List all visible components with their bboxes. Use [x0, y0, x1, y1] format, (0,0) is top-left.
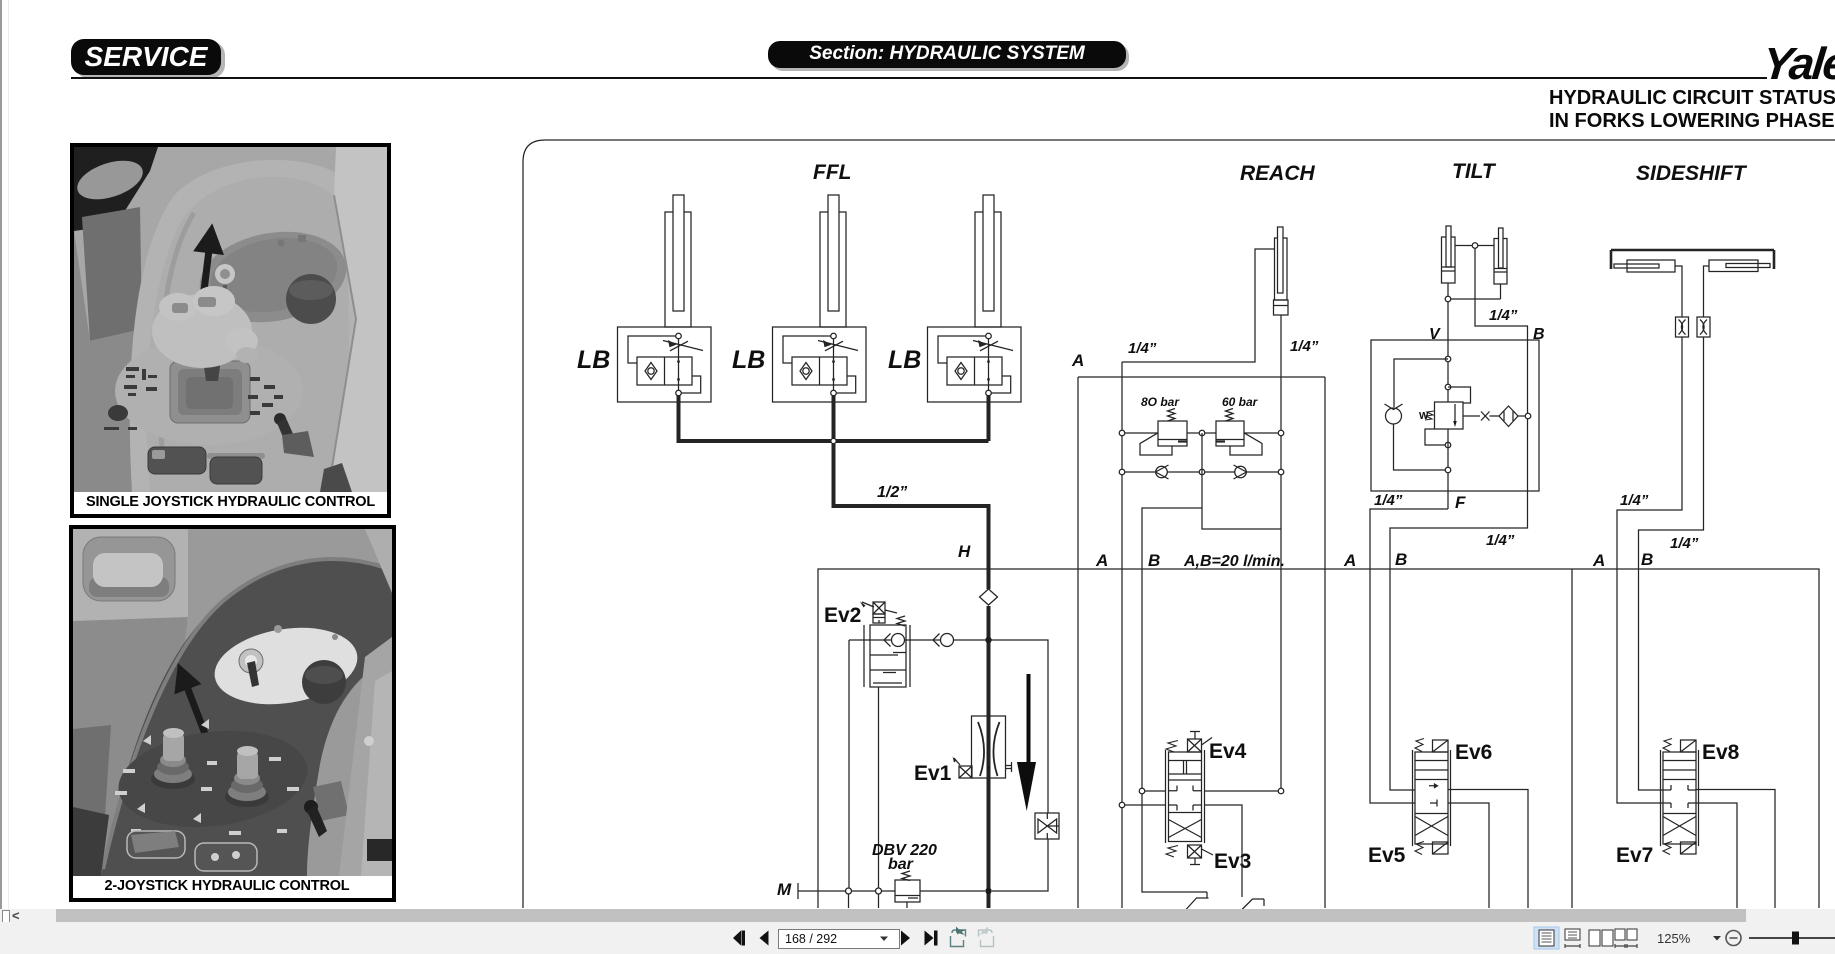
solenoid Ev7: [1681, 842, 1697, 854]
last page button: [925, 931, 938, 946]
valve LB3 with lift cylinder: [928, 195, 1022, 402]
svg-text:F: F: [1455, 493, 1466, 512]
relief valve 80 bar: [1140, 421, 1187, 455]
svg-text:Ev1: Ev1: [914, 762, 952, 785]
svg-text:1/4”: 1/4”: [1620, 492, 1649, 509]
wire Ev2 drain drop: [878, 687, 880, 888]
spring relief 80bar: [1168, 409, 1176, 422]
solenoid Ev3: [1188, 845, 1214, 865]
wire relief supply line: [1119, 430, 1284, 436]
X mark restrictor: [1463, 412, 1490, 421]
solenoid Ev2: [860, 602, 897, 624]
coupler right: [1697, 317, 1710, 337]
wire TILT V line: [1445, 302, 1451, 402]
view mode single page (active): [1534, 927, 1559, 949]
wire TILT cylinder top link: [1455, 243, 1494, 249]
wire TILT pilot lower: [1425, 429, 1451, 448]
spring relief 60bar: [1226, 409, 1234, 422]
wire sideshift left drop: [1675, 266, 1682, 317]
check valve REACH right: [1234, 465, 1247, 479]
spring Ev5: [1415, 842, 1424, 855]
wire sideshift right drop: [1704, 266, 1710, 317]
next page button: [901, 931, 910, 946]
svg-text:M: M: [777, 880, 792, 899]
wire check line lower: [1119, 469, 1284, 475]
svg-text:SIDESHIFT: SIDESHIFT: [1636, 162, 1748, 185]
diagram border frame: [523, 140, 1835, 908]
relief valve 60 bar: [1216, 421, 1262, 455]
check valve on Ev2 line: [933, 634, 954, 647]
valve Ev5/Ev6 directional spool: [1413, 750, 1451, 846]
shutoff valve bowtie: [1035, 813, 1059, 839]
svg-text:60 bar: 60 bar: [1222, 395, 1259, 409]
wire Ev3/4 out to tank2: [1205, 805, 1243, 897]
coupler left: [1676, 317, 1689, 337]
wire A-line to tank1: [1142, 794, 1207, 892]
svg-text:A: A: [1071, 351, 1084, 370]
check symbol diamond on H line: [980, 589, 998, 605]
solenoid Ev4: [1188, 732, 1213, 753]
wire REACH B branch: [1142, 433, 1281, 791]
wire stubs below M line: [849, 894, 908, 908]
svg-text:1/4”: 1/4”: [1128, 340, 1157, 357]
svg-text:1/4”: 1/4”: [1670, 535, 1699, 552]
spring DBV: [902, 871, 910, 881]
svg-text:Ev4: Ev4: [1209, 740, 1247, 763]
valve TILT compensator: [1435, 402, 1464, 429]
svg-text:A,B=20 l/min.: A,B=20 l/min.: [1183, 553, 1285, 570]
wire TILT pilot upper: [1448, 387, 1471, 403]
svg-text:A: A: [1343, 551, 1356, 570]
spring Ev2: [897, 616, 905, 626]
view mode two pages continuous: [1615, 929, 1637, 948]
svg-text:1/4”: 1/4”: [1290, 338, 1319, 355]
port M tick: [797, 883, 799, 899]
valve LB1 with lift cylinder: [618, 195, 712, 402]
cylinder REACH: [1274, 227, 1289, 315]
wire REACH A line down: [1078, 377, 1325, 908]
wire TILT cylinder bottoms: [1445, 283, 1500, 302]
svg-text:1/4”: 1/4”: [1486, 532, 1515, 549]
svg-text:Ev2: Ev2: [824, 604, 861, 627]
spring Ev4: [1166, 741, 1178, 753]
wire Ev3/4 port right: [1205, 788, 1284, 794]
svg-text:A: A: [1095, 551, 1108, 570]
first page button: [733, 931, 745, 946]
solenoid Ev6: [1433, 740, 1449, 752]
wire TILT left branch lower: [1394, 424, 1449, 470]
svg-text:LB: LB: [577, 346, 610, 374]
cylinder TILT right: [1494, 228, 1507, 284]
wire REACH valve line down: [1121, 362, 1123, 908]
next view button (disabled): [978, 927, 994, 947]
zoom dropdown arrow: [1713, 936, 1721, 941]
solenoid Ev1: [953, 757, 973, 779]
wire Ev3/4 port A left: [1139, 788, 1165, 794]
svg-text:W: W: [1419, 411, 1429, 422]
wire M line: [798, 888, 985, 894]
cylinder SIDESHIFT double rod: [1611, 250, 1774, 272]
spring Ev7: [1663, 842, 1672, 855]
zoom slider: [1749, 932, 1835, 945]
previous page button: [760, 931, 769, 946]
manifold block boundary: [818, 569, 1819, 908]
svg-text:REACH: REACH: [1240, 162, 1316, 185]
view mode two pages: [1589, 930, 1613, 946]
svg-text:H: H: [958, 542, 971, 561]
wire REACH rod-side port: [1122, 249, 1275, 362]
wire Ev2 left drop to M line: [848, 640, 850, 891]
svg-text:1/4”: 1/4”: [1489, 307, 1518, 324]
valve Ev2 pressure regulator body: [864, 625, 910, 687]
valve Ev1 flow regulator: [972, 716, 1012, 778]
svg-text:Ev7: Ev7: [1616, 844, 1653, 867]
wire Ev7/8 outputs: [1696, 790, 1775, 909]
spring Ev3: [1166, 846, 1178, 858]
view mode continuous: [1565, 929, 1580, 948]
tank symbol 2: [1242, 899, 1264, 910]
valve LB2 with lift cylinder: [773, 195, 867, 402]
svg-text:1/2”: 1/2”: [877, 484, 907, 501]
wire TILT F to A port: [1370, 509, 1448, 803]
wire TILT center lower: [1445, 429, 1451, 509]
wire Ev2 inlet line: [849, 639, 940, 641]
wire thick H supply down: [985, 606, 991, 908]
spring Ev8: [1663, 739, 1672, 752]
svg-text:A: A: [1592, 551, 1605, 570]
svg-text:TILT: TILT: [1452, 160, 1497, 183]
wire TILT B from link: [1475, 248, 1528, 413]
tank symbol 1: [1186, 892, 1209, 910]
arrow lowering indicator: [1017, 674, 1036, 811]
check valve TILT: [1385, 404, 1403, 424]
previous view button: [951, 927, 967, 947]
wire Ev3/4 port lower left: [1119, 802, 1165, 808]
TILT box: [1371, 340, 1539, 491]
svg-text:FFL: FFL: [813, 161, 851, 184]
wire REACH piston-side port down: [1280, 315, 1282, 791]
svg-text:1/4”: 1/4”: [1374, 492, 1403, 509]
page box dropdown arrow: [880, 937, 888, 942]
zoom out button: [1726, 931, 1741, 946]
spring Ev6: [1415, 739, 1424, 752]
solenoid Ev5: [1433, 842, 1449, 854]
wire sideshift left to A: [1617, 337, 1682, 803]
spring TILT compensator: [1425, 411, 1434, 420]
svg-text:B: B: [1641, 550, 1653, 569]
cylinder TILT left: [1442, 226, 1456, 283]
solenoid Ev8: [1681, 740, 1697, 752]
wire sideshift right to B: [1639, 337, 1704, 790]
valve Ev3/Ev4 directional spool: [1166, 750, 1205, 843]
valve Ev7/Ev8 directional spool: [1661, 750, 1699, 846]
svg-text:Ev5: Ev5: [1368, 844, 1406, 867]
valve DBV relief: [895, 880, 920, 902]
wire thick supply bus from LB valves: [679, 395, 989, 589]
svg-text:LB: LB: [888, 346, 921, 374]
check valve REACH left: [1156, 465, 1169, 479]
wire TILT B to Ev6 port: [1390, 419, 1528, 790]
svg-text:Ev6: Ev6: [1455, 741, 1492, 764]
wire from check valve to H line and loop: [954, 640, 1049, 891]
filter diamond TILT: [1490, 406, 1531, 427]
svg-text:LB: LB: [732, 346, 765, 374]
svg-text:Ev8: Ev8: [1702, 741, 1740, 764]
wire Ev5/6 outputs: [1448, 790, 1528, 909]
svg-text:8O bar: 8O bar: [1141, 395, 1180, 409]
svg-text:Ev3: Ev3: [1214, 850, 1251, 873]
svg-text:B: B: [1148, 551, 1160, 570]
svg-text:B: B: [1395, 550, 1407, 569]
wire TILT left branch: [1394, 359, 1448, 407]
